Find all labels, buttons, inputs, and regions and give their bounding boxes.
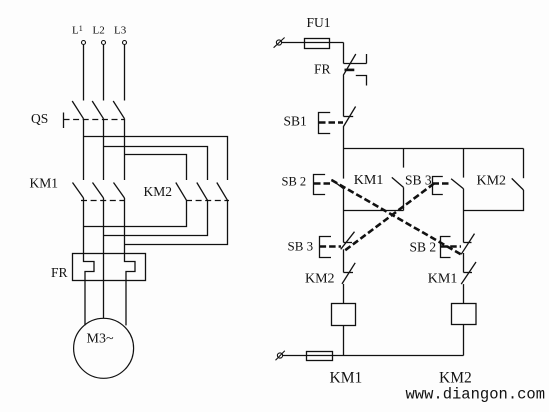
SB3 NC linkage dashed xyxy=(320,245,341,248)
SB1 linkage dashed xyxy=(319,121,343,124)
wire L3 down to QS xyxy=(124,45,126,101)
bus wire xyxy=(344,148,524,150)
svg-text:M3~: M3~ xyxy=(87,332,114,347)
bottom supply terminal xyxy=(277,353,282,358)
terminal L3 xyxy=(123,41,127,45)
QS blade pole2 xyxy=(92,101,103,119)
coil KM2 xyxy=(452,304,477,325)
KM2 NC tick xyxy=(344,272,354,274)
KM2 blade pole2 xyxy=(197,183,208,201)
SB2 NC tick xyxy=(464,242,472,244)
QS blade pole3 xyxy=(113,101,124,119)
KM2 aux NO blade xyxy=(512,178,524,190)
linkage dashed SB2 to its NC (diagonal D1) xyxy=(332,180,462,255)
wire branch L3 to KM2 left pole xyxy=(125,155,187,181)
fuse FU1 xyxy=(305,39,330,49)
svg-text:L3: L3 xyxy=(114,25,127,37)
wire KM2 aux from bus corner xyxy=(523,149,525,179)
KM1 NC tick xyxy=(464,272,473,274)
svg-text:L2: L2 xyxy=(93,25,105,37)
wire QS pole2 down xyxy=(103,119,105,180)
FR contact lower bracket xyxy=(356,76,367,86)
svg-text:KM1: KM1 xyxy=(428,272,458,287)
wire phase2 through FR to motor xyxy=(103,198,105,318)
KM2 blade pole1 xyxy=(176,183,187,201)
wire trunk KM2NC to coil xyxy=(343,284,345,304)
SB1 button actuator xyxy=(319,113,331,134)
fuse FU2 (bottom) xyxy=(307,352,333,361)
KM1 aux NO blade xyxy=(392,177,404,187)
FR contact blade slash xyxy=(343,54,356,75)
wire coil KM2 to bottom bus corner xyxy=(463,325,465,356)
wire branch L1 to KM2 right pole xyxy=(84,137,228,181)
terminal L1 xyxy=(82,41,86,45)
QS blade pole1 xyxy=(72,101,83,119)
SB3 NC blade slash xyxy=(341,232,355,250)
svg-text:KM2: KM2 xyxy=(144,184,173,199)
FR contact tick xyxy=(344,63,367,65)
wire trunk KM1NC to coil xyxy=(463,284,465,303)
KM2 blade pole3 xyxy=(217,183,228,201)
FR contact up stub xyxy=(366,54,368,64)
wire branch L2 to KM2 middle pole xyxy=(104,147,208,181)
svg-text:QS: QS xyxy=(31,111,48,126)
svg-text:SB 3: SB 3 xyxy=(288,239,314,254)
SB2 linkage dashed xyxy=(314,182,333,185)
coil KM1 xyxy=(332,304,356,326)
wire trunk SB3 down xyxy=(463,189,465,243)
SB2 button actuator xyxy=(314,175,326,195)
top terminal slash xyxy=(274,38,285,48)
wire trunk bus to SB3 xyxy=(463,149,465,178)
wire QS pole1 down xyxy=(83,119,85,180)
wire trunk SB2NC to KM1NC xyxy=(463,253,465,273)
svg-text:KM2: KM2 xyxy=(305,272,335,287)
wire L2 down to QS xyxy=(103,45,105,101)
SB1 NC blade slash xyxy=(343,107,355,128)
QS operating bar xyxy=(63,113,65,129)
wire KM1 aux from bus xyxy=(403,149,405,168)
wire terminal to trunk xyxy=(282,42,344,44)
wire trunk SB1 to bus xyxy=(343,127,345,149)
SB2 NC button actuator xyxy=(441,237,451,258)
KM1 linkage dashed xyxy=(81,200,125,202)
wire QS pole3 down xyxy=(124,119,126,180)
svg-text:KM1: KM1 xyxy=(354,173,384,188)
KM1 blade pole3 xyxy=(114,183,125,199)
svg-text:SB 2: SB 2 xyxy=(410,240,437,255)
wire KM2 pole1 merge to phase1 xyxy=(84,200,187,226)
FR thermal relay box xyxy=(73,254,146,281)
motor M circle xyxy=(74,318,134,378)
top supply terminal xyxy=(276,40,281,45)
svg-text:SB1: SB1 xyxy=(284,114,307,129)
wire trunk bus to SB2 xyxy=(343,149,345,179)
svg-text:SB 3: SB 3 xyxy=(405,173,432,188)
SB2 NO blade xyxy=(332,180,344,189)
svg-text:L1: L1 xyxy=(72,24,83,37)
svg-text:KM2: KM2 xyxy=(477,174,507,189)
wire trunk FR to SB1 xyxy=(343,75,345,116)
svg-text:FU1: FU1 xyxy=(307,15,331,30)
wire trunk SB3NC to KM2NC xyxy=(343,249,345,272)
FR heater element phase1 with wire xyxy=(84,198,95,325)
KM2 linkage dashed xyxy=(186,200,229,202)
QS linkage dashed xyxy=(64,119,126,121)
svg-text:KM2: KM2 xyxy=(439,370,472,387)
terminal L2 xyxy=(102,41,106,45)
wire L1 down to QS xyxy=(83,45,85,101)
SB3 NC button actuator xyxy=(320,237,332,258)
wire trunk top xyxy=(343,43,345,64)
svg-text:FR: FR xyxy=(314,62,331,77)
bottom bus wire xyxy=(283,355,464,357)
svg-text:SB 2: SB 2 xyxy=(282,175,307,189)
SB3 button actuator xyxy=(433,177,443,195)
SB2 NC linkage dashed xyxy=(441,245,461,248)
svg-text:FR: FR xyxy=(51,265,68,280)
KM1 blade pole1 xyxy=(73,183,84,199)
SB3 NO blade xyxy=(451,179,463,189)
wire rejoin KM1 aux xyxy=(344,210,404,212)
wire KM2 pole3 merge to phase3 xyxy=(125,200,228,244)
KM2 NC blade slash xyxy=(342,263,355,284)
linkage dashed SB3 to its NC (diagonal D2) xyxy=(345,184,434,251)
FR contact thermal mark xyxy=(345,69,355,72)
SB3 linkage dashed xyxy=(433,182,452,185)
bottom terminal slash xyxy=(276,351,285,361)
svg-text:www.diangon.com: www.diangon.com xyxy=(406,386,546,404)
wire KM2 aux down and rejoin xyxy=(464,190,524,211)
svg-text:KM1: KM1 xyxy=(330,370,363,387)
svg-text:KM1: KM1 xyxy=(30,176,59,191)
wire coil KM1 to bottom bus xyxy=(343,326,345,356)
KM1 blade pole2 xyxy=(93,183,104,199)
SB3 NC tick xyxy=(344,242,353,244)
SB1 NC tick xyxy=(344,116,354,118)
KM1 NC blade slash xyxy=(461,262,476,284)
wire trunk SB2 down xyxy=(343,189,345,243)
wire KM2 pole2 merge to phase2 xyxy=(104,200,208,235)
wire KM1 aux down xyxy=(403,187,405,210)
FR heater element phase3 with wire xyxy=(125,198,136,325)
SB2 NC blade slash xyxy=(461,234,474,255)
